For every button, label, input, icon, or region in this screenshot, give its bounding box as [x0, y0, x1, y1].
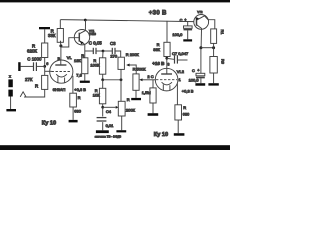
- svg-text:+: +: [184, 18, 186, 22]
- ground R2: [208, 83, 218, 85]
- resistor R100K: [99, 58, 105, 74]
- svg-text:R1: R1: [220, 30, 224, 35]
- capacitor C2 0,05: [92, 48, 94, 54]
- ground C upper: [183, 39, 192, 41]
- wire VL2 cathode lead: [176, 83, 178, 104]
- svg-text:С: С: [180, 18, 183, 22]
- svg-text:680: 680: [74, 108, 81, 113]
- wire C2 to node: [96, 50, 103, 52]
- node bus right: [120, 78, 123, 81]
- R500K wiper: [139, 78, 142, 81]
- ground R680 second: [174, 133, 185, 136]
- node bus left: [101, 78, 104, 81]
- svg-text:2 С: 2 С: [147, 74, 153, 79]
- svg-text:VT2: VT2: [197, 10, 203, 14]
- wire input to C1: [21, 65, 33, 67]
- svg-text:13К: 13К: [74, 58, 81, 63]
- wire node to C7: [167, 57, 174, 60]
- capacitor C1 1000: [33, 62, 35, 71]
- resistor R500K: [133, 74, 139, 90]
- wire rail to R30K: [59, 20, 61, 29]
- capacitor C7: [174, 55, 176, 63]
- svg-text:3: 3: [167, 63, 169, 67]
- svg-text:620К: 620К: [27, 48, 37, 53]
- svg-text:Ку 10: Ку 10: [42, 121, 56, 127]
- svg-text:С 0,05: С 0,05: [89, 41, 102, 46]
- wire rail to R33K: [166, 21, 168, 42]
- transistor VT1: [74, 30, 89, 45]
- wire VT1 base: [61, 38, 79, 47]
- wire VT1 collector to rail: [84, 20, 86, 31]
- pot1 wiper: [126, 64, 129, 67]
- wire VT2 collector down: [200, 29, 202, 48]
- svg-text:антенна ТВ - Н4ДВ: антенна ТВ - Н4ДВ: [95, 134, 122, 138]
- wire R620K to node: [44, 58, 46, 67]
- ground jack: [6, 109, 16, 111]
- resistor 1,5M: [150, 88, 156, 103]
- svg-text:7,8: 7,8: [76, 72, 82, 77]
- resistor R2 right: [210, 57, 217, 74]
- svg-text:33К: 33К: [153, 47, 160, 52]
- wire bus to pot2: [120, 80, 122, 102]
- ground 1,5M: [148, 113, 159, 116]
- svg-text:R: R: [78, 95, 81, 100]
- wire R500K to ground: [135, 90, 137, 98]
- svg-text:33К: 33К: [48, 33, 56, 38]
- svg-text:R 200К: R 200К: [126, 52, 140, 57]
- svg-text:+0,3 В: +0,3 В: [74, 87, 86, 92]
- capacitor C 100,0 lower: [200, 48, 202, 74]
- svg-text:1,5М: 1,5М: [142, 90, 151, 95]
- connector jack segment 1: [8, 79, 12, 87]
- wire R100K to bus: [102, 74, 104, 80]
- node +16V: [165, 57, 168, 60]
- node VT2 out left: [199, 46, 202, 49]
- wire emitter to C2: [85, 50, 93, 52]
- potentiometer R200K upper: [118, 57, 124, 69]
- svg-text:+: +: [197, 69, 199, 73]
- svg-text:10К: 10К: [93, 93, 100, 98]
- wire bus to R10K: [102, 80, 104, 89]
- svg-text:27К: 27К: [25, 77, 33, 82]
- wire node to C4: [102, 107, 104, 116]
- resistor R 27K: [42, 75, 48, 89]
- svg-text:х: х: [9, 74, 11, 78]
- wire pot1 to bus: [120, 69, 122, 79]
- wire bus: [103, 79, 121, 81]
- svg-text:R: R: [35, 84, 38, 89]
- node grid node: [43, 65, 46, 68]
- svg-text:R: R: [127, 97, 130, 102]
- ground R680 first: [69, 120, 78, 123]
- border frame bottom: [0, 145, 230, 150]
- power tap bar (to +30 V): [39, 27, 50, 29]
- wire tap to R2: [44, 29, 46, 43]
- wire +30V rail: [61, 20, 195, 22]
- wire node to R27K: [44, 66, 46, 75]
- wire pot2 to ground: [121, 116, 123, 130]
- tube VL1 cathode: [56, 74, 67, 77]
- svg-text:R 500К: R 500К: [133, 67, 147, 72]
- wire grid branch to tube: [45, 70, 52, 72]
- connector jack segment 2: [8, 90, 12, 97]
- wire C3 to pot1: [115, 51, 120, 57]
- resistor R680 second: [175, 105, 182, 120]
- tube VL2 cathode: [162, 82, 172, 85]
- ground R13K: [80, 81, 90, 83]
- wire R30K to node: [59, 41, 62, 46]
- node VT2 out right: [212, 46, 215, 49]
- svg-text:R6: R6: [220, 59, 224, 64]
- capacitor C3: [111, 48, 113, 54]
- tube VL2 heater legs: [162, 84, 164, 90]
- tube VL2 anode: [161, 73, 172, 75]
- svg-text:100,0: 100,0: [189, 78, 200, 83]
- svg-text:6: 6: [46, 62, 48, 66]
- wire R680 to ground: [72, 107, 74, 120]
- wire out bus: [201, 47, 214, 49]
- capacitor C 100,0 upper: [187, 21, 189, 26]
- wire R27K to plug: [24, 89, 45, 97]
- svg-text:Ку 10: Ку 10: [154, 132, 168, 138]
- wire C1 to node: [37, 65, 45, 67]
- tube VL1 heater legs: [57, 77, 59, 83]
- node C4 junction: [101, 106, 104, 109]
- wire node to R100K: [102, 51, 104, 58]
- resistor R1: [211, 29, 217, 44]
- resistor R33K: [164, 42, 170, 56]
- wire C7 right: [178, 59, 188, 61]
- svg-text:680: 680: [183, 111, 190, 116]
- svg-text:С 1000: С 1000: [27, 56, 42, 61]
- resistor R30K: [57, 29, 63, 43]
- node C2-C3 junction: [102, 50, 105, 53]
- svg-text:+16 В: +16 В: [152, 61, 165, 66]
- wire R13K to ground: [84, 74, 86, 81]
- wire anode VL1 up: [60, 46, 62, 60]
- wire R680-2 to ground: [177, 120, 179, 133]
- svg-text:1: 1: [179, 78, 181, 82]
- resistor R10K: [99, 88, 105, 104]
- ground C4: [96, 130, 109, 133]
- resistor R 620K: [42, 43, 48, 58]
- wire R10K to node: [102, 104, 104, 108]
- resistor R13K: [82, 58, 88, 74]
- node VT1 base junction: [59, 44, 62, 47]
- svg-text:0,01: 0,01: [106, 123, 115, 128]
- svg-text:С: С: [192, 69, 195, 73]
- svg-text:R: R: [183, 105, 186, 110]
- svg-text:6Н3АП: 6Н3АП: [53, 87, 66, 92]
- wire grid line to 1,5M: [152, 80, 154, 88]
- border frame top: [0, 0, 230, 2]
- wire R2 to ground: [213, 73, 215, 83]
- ground R500K: [131, 98, 141, 100]
- wire node to R2: [213, 48, 215, 57]
- svg-text:+0,3 В: +0,3 В: [182, 89, 194, 94]
- wire VL1 cathode lead: [72, 76, 74, 93]
- tube VL1 anode: [55, 64, 66, 66]
- wire node to C3: [103, 50, 112, 52]
- svg-text:П416: П416: [89, 32, 96, 36]
- tube VL2 envelope: [155, 68, 178, 91]
- plug symbol: [20, 92, 26, 97]
- svg-text:200К: 200К: [126, 107, 136, 112]
- wire jack to ground: [10, 97, 12, 110]
- tube VL1 grid dashed: [52, 71, 72, 73]
- wire VT2 emitter to R1: [205, 16, 215, 29]
- wire R33K to node: [166, 57, 168, 59]
- svg-text:VL: VL: [67, 55, 73, 60]
- svg-text:270: 270: [110, 54, 117, 59]
- svg-text:+30 В: +30 В: [149, 9, 167, 16]
- transistor VT2: [194, 15, 209, 30]
- tube VL1 envelope: [50, 60, 73, 83]
- wire 1,5M to ground: [152, 103, 154, 113]
- wire R1 to node: [213, 43, 215, 47]
- potentiometer R200K lower: [118, 101, 125, 116]
- wire C4 to ground: [102, 122, 104, 130]
- wire VT1 emitter down: [84, 44, 86, 57]
- resistor R680 first: [70, 93, 77, 107]
- svg-text:100К: 100К: [90, 62, 100, 67]
- svg-text:С3: С3: [110, 41, 116, 46]
- capacitor C4: [97, 117, 107, 119]
- wire node to pot2 wiper: [103, 106, 116, 108]
- ground C lower: [195, 83, 205, 86]
- svg-text:С4: С4: [106, 109, 112, 114]
- input terminal bar: [18, 62, 20, 71]
- tube VL2 grid dashed: [156, 79, 177, 81]
- svg-text:R: R: [81, 53, 84, 58]
- svg-text:100,0: 100,0: [172, 32, 183, 37]
- node rail-collector junction: [84, 19, 87, 22]
- ground pot2: [116, 130, 126, 132]
- svg-text:VL2: VL2: [177, 69, 185, 74]
